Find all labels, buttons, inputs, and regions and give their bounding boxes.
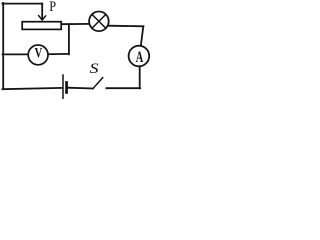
svg-text:V: V	[35, 45, 43, 61]
svg-text:A: A	[136, 49, 144, 66]
svg-text:S: S	[90, 61, 100, 77]
svg-text:P: P	[49, 0, 56, 15]
